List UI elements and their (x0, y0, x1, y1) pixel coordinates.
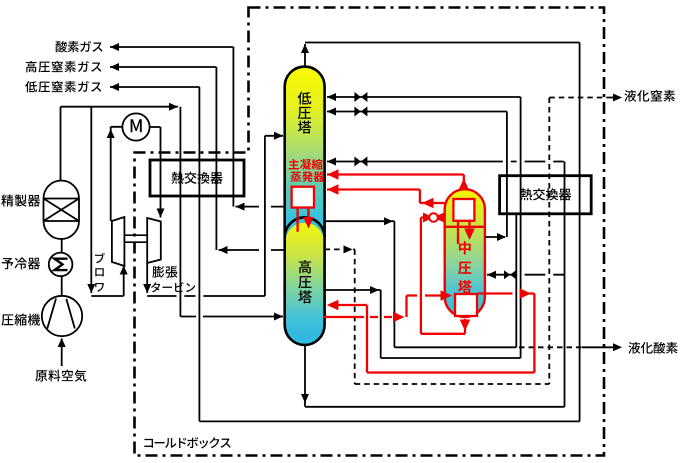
turbine shaft (124, 235, 147, 242)
compressor 圧縮機 (42, 296, 82, 336)
red wire: MP top vapor to LP condenser (upper) (327, 169, 469, 190)
red wire: MP lower box to HP column loop (327, 288, 535, 372)
label 高圧窒素ガス (26, 61, 101, 73)
valve on LP branch (354, 157, 367, 167)
heat exchanger box (left) 熱交換器 (150, 160, 244, 196)
label 液化酸素 (628, 342, 677, 354)
main condenser-evaporator box 主凝縮蒸発器 (292, 187, 314, 232)
heat exchanger box (right) 熱交換器 (500, 176, 592, 214)
red wire: MP bottom recirculation through valve (421, 212, 470, 334)
red wire: HP liquid to MP lower box (dashed) (323, 290, 452, 322)
wire: main air feed to HP column (61, 103, 284, 321)
motor M (122, 113, 149, 140)
valve on line 2 (354, 107, 367, 117)
wire: branch air to blower (87, 107, 127, 296)
MP reboiler box (bottom) (455, 294, 477, 316)
label 予冷器 (2, 257, 41, 269)
label 低圧塔 (vertical) (298, 92, 312, 134)
wire: HP column liquid to LP column (valve line 1) (323, 93, 520, 358)
blower ブロワ (112, 217, 125, 266)
label 精製器 (1, 194, 40, 206)
label 主凝縮蒸発器 (red) (289, 159, 325, 182)
label 圧縮機 (1, 314, 40, 326)
wire: oxygen gas product line 酸素ガス (110, 43, 233, 207)
label コールドボックス (144, 437, 230, 448)
MP condenser box (top) (453, 199, 474, 244)
label 液化窒素 (624, 90, 675, 102)
wire: MP column top to LP column (valve line 2) (327, 108, 507, 242)
label タービン (151, 282, 195, 292)
purifier vessel 精製器 (44, 181, 80, 240)
wire: compressor to precooler (61, 276, 63, 296)
precooler 予冷器 (49, 253, 73, 277)
label 膨張 (152, 266, 177, 278)
label ブロワ (vertical) (95, 253, 105, 292)
medium pressure column vessel 中圧塔 (445, 189, 485, 317)
wire: blower discharge via motor M to turbine inlet (107, 127, 165, 221)
expansion turbine 膨張タービン (147, 218, 161, 263)
wire: liquid oxygen product (dashed) 液化酸素 (519, 343, 622, 351)
wire: precooler to purifier (61, 238, 63, 253)
valve on MP branch (504, 270, 516, 279)
cold box boundary (dash-dot) コールドボックス (135, 8, 605, 456)
label 原料空気 (35, 370, 86, 382)
wire: HP bottom liquid riser feeding LP and MP columns (301, 158, 565, 407)
wire: LP nitrogen gas loop 低圧窒素ガス (110, 43, 580, 422)
wire: turbine exhaust to LP column (143, 132, 283, 296)
wire: HP nitrogen takeoff from column (219, 246, 285, 254)
label 低圧窒素ガス (25, 81, 101, 93)
label 中圧塔 (red vertical) (458, 241, 472, 293)
red wire: MP top vapor to LP condenser (lower) (327, 184, 445, 208)
label 高圧塔 (vertical) (298, 260, 312, 303)
wire: oxygen takeoff from column (236, 203, 285, 211)
label 熱交換器 (right box) (520, 188, 571, 200)
MP column internal partition line (445, 226, 485, 228)
wire: LP bottom liquid oxygen to right heat exchanger (325, 215, 517, 347)
label 酸素ガス (56, 41, 103, 53)
red valve with actuator (423, 213, 444, 223)
wire: HP nitrogen gas product line 高圧窒素ガス (110, 63, 216, 250)
wire: liquid nitrogen product (dashed) 液化窒素 (325, 94, 622, 385)
valve on line 1 (354, 92, 367, 102)
wire: raw air feed into compressor 原料空気 (58, 338, 66, 366)
main distillation column vessel (LP over HP) (285, 67, 325, 345)
label 熱交換器 (left box) (172, 172, 223, 184)
